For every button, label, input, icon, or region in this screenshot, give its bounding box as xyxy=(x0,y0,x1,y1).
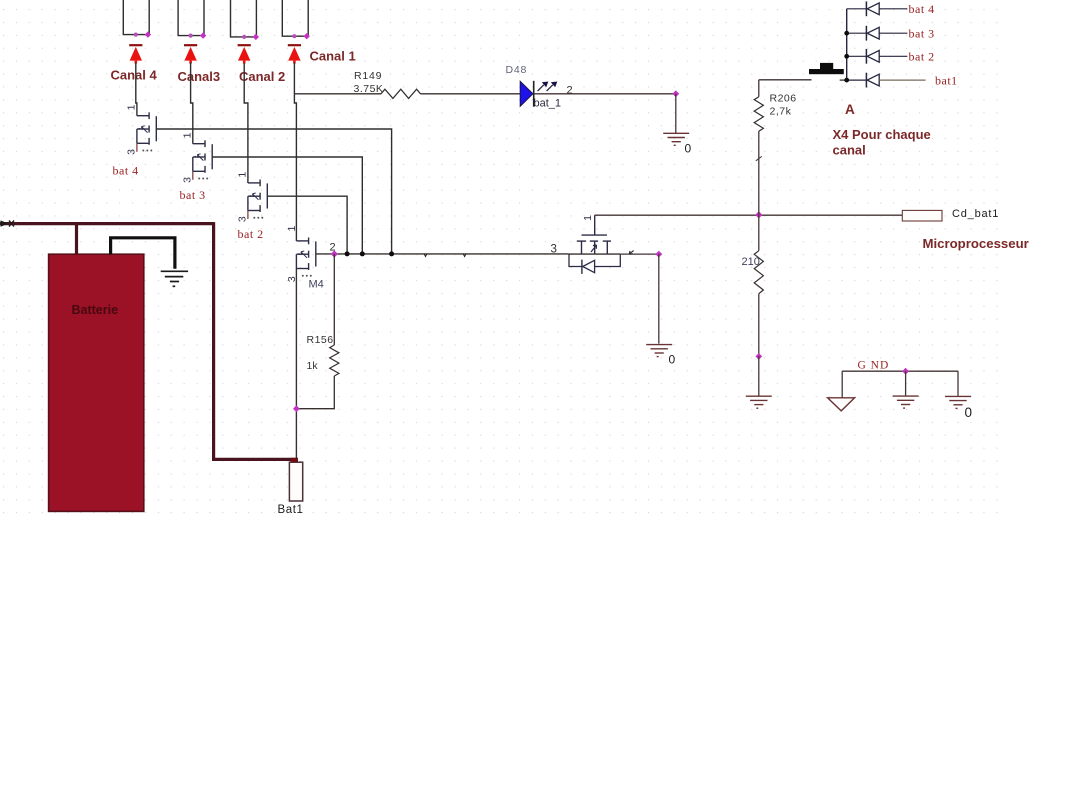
svg-text:bat 3: bat 3 xyxy=(180,188,206,202)
node dot Canal 4 xyxy=(134,33,138,37)
LED bus vertical xyxy=(846,9,848,80)
svg-text:G ND: G ND xyxy=(858,360,890,372)
junction diamond node 2 xyxy=(331,250,338,257)
transistor Q_pass (horizontal) xyxy=(582,234,607,236)
node dot Canal3 xyxy=(189,34,193,38)
svg-text:Bat1: Bat1 xyxy=(278,504,304,516)
svg-text:bat 4: bat 4 xyxy=(909,2,935,16)
svg-text:bat 2: bat 2 xyxy=(238,227,264,241)
diode bat1 xyxy=(847,79,867,81)
junction diamond Q_pass output xyxy=(655,251,662,258)
transistor Q_bat3 xyxy=(211,144,213,169)
tick mark on node2 row xyxy=(424,254,427,257)
body diode Q_pass xyxy=(569,254,582,266)
svg-text:R156: R156 xyxy=(307,334,334,346)
svg-text:0: 0 xyxy=(669,353,676,367)
red arrow diode Canal 2 xyxy=(238,44,251,46)
tick mark on node2 row xyxy=(463,254,466,257)
junction dot bat 3 xyxy=(844,31,849,36)
svg-text:3: 3 xyxy=(551,243,557,255)
wire down to ground 0 (Q_pass) xyxy=(658,254,660,344)
resistor R156 xyxy=(330,345,339,376)
earth ground 0 (right) xyxy=(957,371,959,396)
small arrow on wire xyxy=(629,251,633,254)
wire R156 bottom xyxy=(296,376,334,409)
wire R206 to node xyxy=(758,131,760,215)
wire button row xyxy=(759,79,812,81)
junction dot bat1 xyxy=(844,78,849,83)
svg-text:R206: R206 xyxy=(770,93,797,105)
thick battery rail top xyxy=(0,222,214,225)
connector loop Canal 4 xyxy=(123,0,149,35)
svg-text:2: 2 xyxy=(567,85,573,97)
diode bat 3 xyxy=(847,32,867,34)
resistor 210 xyxy=(758,215,760,251)
wire GND net xyxy=(842,370,958,372)
svg-text:R149: R149 xyxy=(354,70,382,82)
source tail Q_bat3 xyxy=(192,171,194,180)
svg-text:1: 1 xyxy=(582,215,594,221)
svg-text:bat 4: bat 4 xyxy=(113,164,139,178)
svg-text:canal: canal xyxy=(833,143,866,158)
connector loop Canal 1 xyxy=(282,0,308,36)
svg-text:1: 1 xyxy=(286,226,298,232)
svg-text:2,7k: 2,7k xyxy=(770,106,792,118)
svg-text:3: 3 xyxy=(181,177,193,183)
svg-text:0: 0 xyxy=(685,142,692,156)
svg-text:Canal 2: Canal 2 xyxy=(239,69,285,84)
connector loop Canal 2 xyxy=(231,0,257,37)
junction diamond GND xyxy=(902,368,909,375)
wire R149 to D48 xyxy=(421,93,521,95)
node dot Canal 2 xyxy=(242,35,246,39)
junction dot bat2 gate xyxy=(345,251,350,256)
thick rail right drop xyxy=(212,222,215,459)
svg-text:X4 Pour chaque: X4 Pour chaque xyxy=(833,127,931,142)
thick rail to battery + xyxy=(75,224,78,255)
wire M4 gate row (node 2) xyxy=(316,253,568,255)
thick rail bottom to Bat1 xyxy=(212,458,298,461)
push button A xyxy=(809,69,844,74)
ground 0 (D48 branch) xyxy=(663,132,689,134)
wire 210 to ground xyxy=(758,294,760,357)
wire Canal 2 to Q_bat2 drain xyxy=(244,63,248,183)
ground (210 branch) xyxy=(746,395,772,397)
svg-text:Canal 4: Canal 4 xyxy=(111,68,158,83)
triangle ground xyxy=(841,371,843,397)
junction diamond Canal3 xyxy=(200,32,206,38)
transistor Q_bat2 xyxy=(266,183,268,208)
wire node2 to R156 xyxy=(333,254,335,345)
wire gate Q_bat4 to bus xyxy=(156,129,391,254)
component Bat1 xyxy=(289,462,302,501)
transistor M4 xyxy=(315,241,317,266)
svg-text:bat_1: bat_1 xyxy=(534,98,562,110)
battery block Batterie xyxy=(49,254,144,511)
ground 0 (Q_pass branch) xyxy=(646,344,672,346)
red arrow diode Canal3 xyxy=(184,44,197,46)
break tick xyxy=(756,156,762,160)
source tail Q_bat2 xyxy=(247,211,249,220)
wire Q_pass to ground node xyxy=(620,253,659,255)
junction blob xyxy=(291,458,299,463)
svg-text:A: A xyxy=(845,102,855,117)
svg-text:Canal3: Canal3 xyxy=(178,69,221,84)
red arrow diode Canal 4 xyxy=(129,44,142,46)
main channel wire Q_pass xyxy=(568,253,621,255)
resistor R149 xyxy=(381,89,421,98)
connector Cd_bat1 xyxy=(902,210,942,221)
D48 light arrows xyxy=(538,85,544,91)
wire R206 top xyxy=(758,80,760,97)
wire Canal 4 to Q_bat4 drain xyxy=(136,63,137,116)
svg-text:bat 3: bat 3 xyxy=(909,27,935,41)
svg-text:1k: 1k xyxy=(307,360,319,372)
svg-text:Batterie: Batterie xyxy=(72,303,119,317)
wire gate Q_bat3 to bus xyxy=(212,157,362,254)
svg-text:D48: D48 xyxy=(506,64,528,76)
junction dot bat4 gate xyxy=(389,251,394,256)
red arrow diode Canal 1 xyxy=(288,44,301,46)
junction dot bat3 gate xyxy=(360,251,365,256)
diode bat 4 xyxy=(847,8,867,10)
svg-text:3: 3 xyxy=(237,216,249,222)
svg-text:3: 3 xyxy=(126,149,138,155)
earth ground (middle) xyxy=(905,371,907,396)
svg-text:bat 2: bat 2 xyxy=(909,50,935,64)
node dot Canal 1 xyxy=(292,34,296,38)
junction diamond R206 node xyxy=(755,211,762,218)
svg-text:0: 0 xyxy=(965,405,973,420)
junction dot bat 2 xyxy=(844,54,849,59)
junction diamond 210 ground xyxy=(755,353,762,360)
svg-text:M4: M4 xyxy=(309,279,324,291)
diode bat 2 xyxy=(847,55,867,57)
transistor Q_bat4 xyxy=(155,116,157,141)
svg-text:1: 1 xyxy=(181,132,193,138)
svg-text:Microprocesseur: Microprocesseur xyxy=(923,236,1029,251)
battery negative black wire xyxy=(111,238,175,269)
junction diamond Canal 2 xyxy=(253,34,259,40)
wire Canal 1 to M4 drain xyxy=(294,63,296,242)
svg-text:Cd_bat1: Cd_bat1 xyxy=(952,208,999,220)
resistor R206 xyxy=(754,97,763,132)
wire Canal1 to R149 xyxy=(295,93,381,95)
LED D48 xyxy=(520,81,533,106)
svg-text:1: 1 xyxy=(237,172,249,178)
svg-text:210: 210 xyxy=(742,256,760,268)
wire button to LED bus xyxy=(840,79,847,81)
wire down to ground 0 xyxy=(675,94,677,134)
connector loop Canal3 xyxy=(178,0,204,36)
junction diamond R156/source xyxy=(293,405,300,412)
svg-text:Canal 1: Canal 1 xyxy=(310,49,356,64)
junction diamond Canal 4 xyxy=(145,31,151,37)
wire M4 source to battery rail xyxy=(295,269,297,460)
svg-text:bat1: bat1 xyxy=(935,74,958,88)
black chassis ground xyxy=(161,270,188,272)
wire D48 to ground xyxy=(534,93,676,95)
svg-text:3.75K: 3.75K xyxy=(354,83,384,95)
junction diamond Canal 1 xyxy=(304,33,310,39)
wire Q_pass gate to Cd_bat1 xyxy=(595,214,903,216)
junction diamond D48 ground node xyxy=(672,90,679,97)
wire Canal 3 to Q_bat3 drain xyxy=(191,63,193,144)
gate wire Q_pass xyxy=(594,215,596,235)
wire gate Q_bat2 to bus xyxy=(267,196,347,254)
source tail Q_bat4 xyxy=(136,143,138,152)
off-page connector xyxy=(1,220,9,226)
svg-text:1: 1 xyxy=(126,104,138,110)
